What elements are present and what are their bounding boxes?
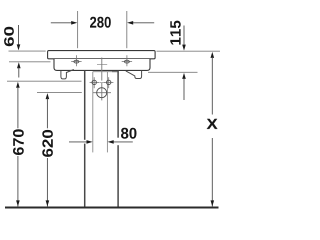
- pedestal top inner line: [93, 71, 112, 73]
- 60 dimension lower arrow: [17, 62, 21, 68]
- 280 extension line left: [77, 11, 79, 48]
- 115 dimension lower arrow: [182, 73, 186, 79]
- 620 dimension: [46, 93, 50, 99]
- right hook bracket: [126, 71, 142, 79]
- right fixing hole crosshair: [122, 60, 132, 62]
- pedestal right edge: [117, 71, 119, 138]
- big pedestal hole: [93, 92, 111, 94]
- label 80: [121, 128, 137, 139]
- label 620: [42, 130, 53, 157]
- small pedestal hole right: [104, 81, 113, 83]
- ref line 115 bottom: [148, 71, 198, 73]
- centerline: [101, 58, 103, 81]
- label X: [207, 119, 218, 129]
- X dimension: [211, 52, 215, 58]
- label 280: [90, 17, 111, 28]
- ref line 60 bottom: [9, 61, 51, 63]
- 115 dimension upper: [183, 26, 185, 46]
- ref line 670 top: [7, 80, 82, 82]
- 280 dimension right segment: [133, 22, 155, 24]
- small pedestal hole left: [90, 81, 99, 83]
- 670 dimension: [16, 82, 20, 88]
- label 115: [170, 21, 180, 45]
- pedestal left edge: [84, 70, 86, 139]
- pedestal cutout / 80 extension line right: [106, 72, 108, 153]
- basin rim (front view top slab): [48, 51, 156, 59]
- floor line: [5, 207, 219, 209]
- 280 extension line right: [126, 11, 128, 48]
- left hook bracket: [61, 70, 74, 79]
- ref line 620 top: [37, 92, 82, 94]
- 280 dimension left segment: [51, 22, 72, 24]
- basin body under rim: [54, 59, 150, 70]
- 60 dimension upper arrow: [18, 25, 20, 45]
- left fixing hole crosshair: [71, 60, 81, 62]
- ref line rim-top right: [157, 50, 221, 52]
- washbasin with pedestal technical dimension drawing: [0, 0, 220, 220]
- pedestal cutout / 80 extension line left: [92, 72, 94, 153]
- 80 dimension: [69, 141, 87, 143]
- label 670: [13, 129, 24, 155]
- label 60: [4, 27, 14, 47]
- ref line rim-top left: [9, 50, 46, 52]
- drain centre tick: [97, 64, 107, 66]
